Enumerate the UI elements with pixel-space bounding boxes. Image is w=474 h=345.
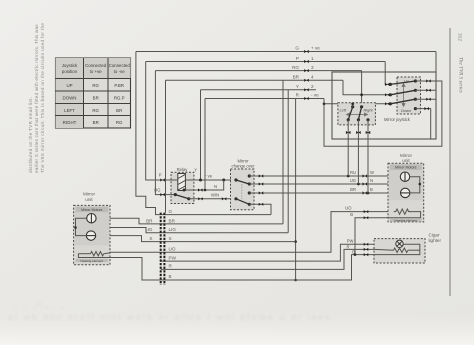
svg-text:W/N: W/N [211, 193, 219, 198]
up/down blade 1 [390, 81, 415, 84]
up/down contact 4 [414, 107, 417, 110]
connector X on PW cigar wire [364, 243, 369, 246]
svg-text:7t: 7t [36, 302, 42, 309]
connector X out3 [259, 191, 264, 194]
wire G +ve top row [136, 51, 436, 53]
left/right contact 3 [366, 118, 369, 121]
left/right pivot 1 [351, 105, 354, 108]
junction S row on R riser [294, 240, 297, 243]
svg-text:BR: BR [293, 75, 300, 80]
svg-text:Mirror joystick: Mirror joystick [384, 117, 411, 122]
junction B branch [354, 253, 357, 256]
changeover mechanical link [241, 184, 243, 199]
wire RU/W row changeover to right mirror motor [249, 175, 400, 177]
junction -ve branch [323, 103, 326, 106]
svg-text:G: G [169, 209, 173, 214]
up/down contact 3 [414, 98, 417, 101]
svg-text:PW: PW [169, 255, 177, 260]
svg-text:P: P [296, 56, 299, 61]
junction N on common [419, 183, 422, 186]
wire Y riser to LIG row [287, 90, 289, 233]
connector X on RG row [304, 69, 309, 72]
mirror joystick outer box [332, 72, 436, 139]
svg-text:change over: change over [231, 164, 255, 169]
svg-text:+ ve: + ve [311, 46, 320, 51]
up/down blade 2 [390, 90, 415, 95]
svg-text:RG: RG [92, 108, 99, 113]
wire -ve branch to up/down switch left pole [324, 103, 390, 105]
relay coil [178, 174, 186, 191]
svg-text:312: 312 [457, 33, 463, 41]
svg-text:RG: RG [92, 83, 99, 88]
wire contact4 drop to box bottom [415, 109, 430, 139]
right mirror motor 2 [401, 188, 410, 197]
svg-text:B: B [169, 274, 172, 279]
wire G bus row [161, 214, 271, 216]
wire R -ve row [205, 98, 324, 100]
svg-text:PW: PW [347, 238, 354, 243]
connector X on contact2 wire [426, 89, 431, 92]
svg-text:4: 4 [311, 75, 314, 80]
connector X on N wire [198, 188, 203, 191]
svg-text:+ ve: + ve [204, 174, 213, 179]
svg-text:to +ve: to +ve [90, 69, 103, 74]
svg-text:UO: UO [169, 246, 176, 251]
wire Y pin2 row [201, 89, 317, 91]
connector X out1 [259, 174, 264, 177]
wire S bus row [110, 236, 296, 242]
cigar element resistor [394, 248, 408, 252]
wire R right drop distributing -ve [324, 81, 442, 146]
wire R left wrap down to relay coil return [204, 99, 206, 191]
wire P left wrap down to relay [146, 62, 162, 181]
left/right contact 2 [357, 118, 360, 121]
wire changeover out4 down to G bus row [249, 204, 271, 214]
junction Y to +ve node [199, 179, 202, 182]
svg-text:unit: unit [402, 158, 410, 163]
connector X on contact1 drop [346, 131, 351, 134]
connector X on RG relay feed [160, 193, 165, 196]
wire R bus row to cigar lighter [161, 249, 374, 269]
svg-text:BR: BR [350, 187, 356, 192]
cigar bulb [396, 240, 403, 247]
svg-text:LIG: LIG [145, 227, 153, 232]
svg-text:RU: RU [350, 170, 356, 175]
svg-text:RG: RG [154, 188, 160, 193]
svg-text:RG.P: RG.P [114, 96, 125, 101]
svg-text:Relay: Relay [177, 167, 189, 172]
svg-text:DOWN: DOWN [63, 96, 77, 101]
right mirror unit box [388, 163, 424, 222]
left mirror unit box [74, 205, 110, 264]
junction LIG on common [74, 226, 77, 229]
wire left heater feed [78, 253, 90, 255]
left/right switch box [338, 103, 376, 125]
connector bus left bar [160, 213, 162, 285]
svg-text:Heating element: Heating element [81, 259, 104, 263]
svg-text:ol wb dnc arotl niot wotb ni d: ol wb dnc arotl niot wotb ni dlico t wol… [8, 312, 332, 322]
svg-text:LIG: LIG [169, 227, 177, 232]
connector X on B cigar wire [364, 253, 369, 256]
connector X before changeover pole 1 [230, 178, 235, 181]
svg-text:3: 3 [311, 65, 314, 70]
svg-text:UO: UO [345, 206, 352, 211]
svg-text:S: S [149, 236, 152, 241]
up/down left pole 3 [389, 102, 392, 105]
right mirror motors label strip [390, 164, 422, 170]
relay coil bottom terminal [183, 189, 186, 192]
wire contact2 stub to +ve box edge [415, 89, 436, 91]
wire contact3 drop to B row [367, 120, 369, 193]
wire RG pin3 row [155, 70, 361, 72]
wire UO bus row to right mirror heater [110, 212, 394, 253]
changeover pole 2 [234, 197, 237, 200]
connector X on BR row [304, 79, 309, 82]
svg-text:Mirror: Mirror [83, 192, 95, 197]
wire BR right drop feeding joystick switches [343, 80, 390, 95]
svg-text:Down: Down [401, 108, 411, 113]
svg-text:BR: BR [93, 96, 99, 101]
svg-text:LEFT: LEFT [64, 108, 75, 113]
changeover blade 1 [236, 180, 249, 184]
changeover blade 2 [236, 199, 249, 205]
wire B bus row to cigar lighter [161, 255, 374, 280]
svg-text:Y: Y [296, 84, 299, 89]
relay box [171, 172, 194, 203]
changeover pole 1 [234, 178, 237, 181]
left/right contact 1 [347, 118, 350, 121]
cigar lighter box [374, 239, 425, 263]
wire W/N from relay to changeover pole 2 [189, 198, 236, 200]
wire RG into relay switch [162, 194, 175, 196]
left mirror heater resistor [91, 252, 104, 256]
left mirror heater label strip [76, 259, 108, 262]
svg-text:distributed on the TVR email l: distributed on the TVR email list. [28, 97, 33, 173]
joystick connection table [56, 58, 131, 128]
wire contact3 stub [415, 98, 436, 100]
connector X out4 [259, 203, 264, 206]
cigar internal wires [374, 244, 420, 254]
wire BR/B row changeover to right mirror motor2 [249, 192, 400, 194]
up/down contact 2 [414, 89, 417, 92]
connector X on B at mirror [363, 191, 368, 194]
wire R riser to S and B rows [295, 99, 297, 281]
connector X on R cigar wire [364, 248, 369, 251]
svg-text:Left: Left [340, 108, 347, 113]
right mirror motor 1 [400, 172, 409, 181]
junction B row on R riser [294, 279, 297, 282]
svg-text:Right: Right [364, 108, 374, 113]
left mirror motor 1 [87, 214, 96, 223]
junction pivot1 feed [351, 102, 354, 105]
wire UG/N row changeover to right mirror common [249, 183, 419, 185]
svg-text:N: N [370, 178, 373, 183]
left mirror motor 2 [86, 231, 95, 240]
changeover contact 1 [248, 174, 251, 177]
svg-text:lighter: lighter [429, 238, 442, 243]
svg-text:S: S [169, 236, 172, 241]
wire N from relay coil bottom [184, 180, 224, 190]
wire B branch up to right mirror heater return [355, 218, 388, 255]
right mirror motors shade [389, 164, 423, 200]
connector X on up/down feed 3 [385, 102, 390, 105]
left/right blade 2 [358, 107, 361, 120]
left mirror motors shade [75, 206, 109, 245]
junction middle switch drop on UG row [357, 183, 360, 186]
wire P pin1 row [146, 61, 386, 63]
wire right mirror common [410, 177, 420, 193]
svg-text:UP: UP [66, 83, 72, 88]
junction third switch drop on B row [367, 192, 370, 195]
wire contact2 drop to UG row [357, 120, 359, 184]
svg-text:BR: BR [116, 108, 122, 113]
left/right arrow [347, 113, 368, 116]
svg-text:G: G [295, 46, 299, 51]
connector X on P row [304, 60, 309, 63]
svg-text:N: N [214, 184, 217, 189]
svg-text:earlier S series cars that wer: earlier S series cars that were fitted w… [34, 24, 39, 173]
up/down left pole 1 [389, 83, 392, 86]
junction left/right switch drop on RU row [347, 175, 350, 178]
wire RG left wrap down to relay switch [155, 71, 162, 195]
wire LIG bus row [110, 228, 288, 233]
svg-text:BR: BR [93, 120, 99, 125]
wire contact1 drop to RU row [347, 120, 349, 176]
up/down left pole 2 [389, 93, 392, 96]
svg-text:position: position [62, 69, 78, 74]
svg-text:1: 1 [311, 56, 314, 61]
changeover contact 4 [248, 203, 251, 206]
svg-text:Joystick: Joystick [62, 63, 78, 68]
svg-text:Heating element: Heating element [395, 218, 418, 222]
svg-text:R: R [346, 244, 349, 249]
svg-text:P.BR: P.BR [114, 83, 124, 88]
svg-text:Mirror Motors: Mirror Motors [81, 208, 103, 212]
connector X on contact3 wire [426, 98, 431, 101]
wire RG right drop to left/right switch pivot [361, 71, 363, 107]
connector X on mirror heater return [364, 216, 369, 219]
wire pivot1 feed from -ve branch [352, 104, 354, 107]
svg-text:Connected: Connected [109, 63, 131, 68]
left mirror motors label strip [76, 207, 108, 213]
connector X on P relay feed [160, 178, 165, 181]
wire P right drop to joystick up/down switch [385, 62, 390, 85]
connector X on contact2 drop [356, 131, 361, 134]
svg-text:Cigar: Cigar [429, 233, 440, 238]
svg-text:BR: BR [169, 218, 176, 223]
up/down switch box [397, 77, 421, 114]
svg-text:P: P [159, 173, 162, 178]
wire G left wrap staircase to connector bus [136, 52, 161, 215]
connector X on R row [304, 97, 309, 100]
mirror change over box [231, 169, 255, 210]
svg-text:UG: UG [350, 178, 356, 183]
connector X on W at mirror [363, 174, 368, 177]
connector X on contact4 wire [424, 107, 429, 110]
svg-text:The V8S mirror circuit. This i: The V8S mirror circuit. This is based on… [40, 23, 45, 173]
svg-text:BR: BR [146, 218, 153, 223]
wire +ve drop right edge [435, 52, 437, 91]
connector X on UO heater wire [364, 210, 369, 213]
up/down arrow [402, 84, 405, 107]
changeover contact 3 [248, 191, 251, 194]
wire BR riser to left-mirror BR row [282, 80, 284, 224]
up/down blade 3 [390, 99, 415, 104]
wire +ve node row from coil to changeover pole 1 [185, 179, 236, 181]
wire P feed into relay coil [162, 179, 178, 181]
wire contact1 to -ve loop [415, 80, 442, 82]
changeover contact 2 [248, 182, 251, 185]
connector X on up/down feed 1 [385, 83, 390, 86]
svg-text:- ve: - ve [311, 93, 319, 98]
svg-text:Y: Y [194, 168, 197, 173]
svg-text:unit: unit [85, 197, 93, 202]
svg-text:B: B [350, 212, 353, 217]
svg-text:Connected: Connected [85, 63, 107, 68]
wire BR left wrap down to connector bus top [165, 80, 167, 212]
svg-text:to -ve: to -ve [114, 69, 126, 74]
ghost bleed-through text bottom [8, 302, 332, 322]
connector X on contact1 wire [426, 79, 431, 82]
relay switch pivot [174, 193, 177, 196]
junction R return on N wire [204, 189, 207, 192]
junction N riser to +ve node [222, 179, 225, 182]
svg-text:W: W [370, 170, 374, 175]
up/down contact 1 [414, 79, 417, 82]
svg-text:The TVR S series: The TVR S series [458, 57, 464, 93]
svg-text:Mirror Motors: Mirror Motors [395, 166, 417, 170]
wire left heater return loop [78, 254, 160, 280]
connector X on up/down feed 2 [385, 93, 390, 96]
connector bus right bar [163, 213, 165, 285]
svg-text:RG: RG [292, 65, 299, 70]
svg-text:2: 2 [311, 84, 314, 89]
left/right blade 1 [348, 107, 353, 120]
right mirror heater resistor [394, 209, 411, 214]
relay switch blade [175, 195, 189, 199]
relay switch contact [187, 197, 190, 200]
wire left mirror common [76, 218, 87, 235]
wire BR bus row [110, 218, 283, 224]
connector X on G row [304, 50, 309, 53]
connector X on contact3 drop [366, 131, 371, 134]
svg-text:RG: RG [116, 120, 123, 125]
connector X on N at mirror [363, 182, 368, 185]
connector X on W/N wire [198, 197, 203, 200]
page margin rule [449, 28, 451, 296]
connector X out2 [259, 182, 264, 185]
connector X on Y row [304, 88, 309, 91]
left/right pivot 2 [360, 105, 363, 108]
junction RG drop at BR feed crossing [360, 93, 363, 96]
svg-text:B: B [370, 187, 373, 192]
wire PW bus row to cigar lighter [161, 244, 374, 261]
svg-text:RIGHT: RIGHT [63, 120, 77, 125]
right mirror heater label strip [390, 218, 422, 221]
wire BR pin4 row [166, 79, 344, 81]
wire Y left wrap down to relay +ve node [200, 90, 202, 180]
connector X second on W/N wire [222, 197, 227, 200]
wire right heater loop [388, 212, 421, 218]
